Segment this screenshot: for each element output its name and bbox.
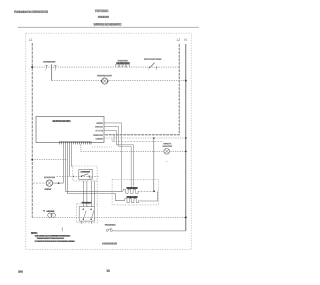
wire strip corner to indicator row <box>81 144 186 151</box>
lamp DK1 <box>102 78 108 84</box>
svg-text:2: 2 <box>156 69 157 71</box>
wire EOC inner nested corner <box>112 139 162 142</box>
bake element resistor <box>122 189 139 193</box>
door lock assembly outer dashed box <box>73 166 97 181</box>
header rule <box>18 26 199 28</box>
wire EOC pin2 nested <box>104 127 131 189</box>
junction L1 top row <box>31 66 33 68</box>
broil element resistor <box>124 199 139 203</box>
lower latch switch 2 <box>90 209 91 210</box>
lamp DK2 <box>164 149 170 155</box>
junction bake element feed <box>153 190 155 192</box>
svg-text:L2: L2 <box>177 38 181 42</box>
svg-text:xx: xx <box>166 161 168 163</box>
small wire stub near notes <box>61 227 63 231</box>
resistor oven vent heater <box>116 64 130 67</box>
wire bundle strip drop 4 <box>69 144 71 176</box>
lamp oven light filament <box>47 181 51 185</box>
TOD arrow marker <box>43 210 45 212</box>
wire EOC pin5 to N <box>104 137 186 139</box>
switch S1 terminal 1 <box>45 65 47 69</box>
wire N bottom return <box>113 230 185 232</box>
lamp DK1 terminal dots <box>101 80 103 82</box>
L2 bus wire <box>104 44 179 135</box>
wire EOC pin3 nested <box>104 130 133 186</box>
door lock motor inner box <box>79 169 92 179</box>
switch S2 blade <box>150 63 155 68</box>
lower latch switch 1 <box>83 209 84 210</box>
lower latch dashed box <box>77 204 98 223</box>
wire L1 to bundle <box>32 159 67 161</box>
motor coil M1 <box>48 213 52 217</box>
wire lock assembly drop dashed <box>96 181 98 204</box>
wire bottom row L1 to N <box>32 216 186 218</box>
wire to oven lamp <box>33 182 46 184</box>
wire EOC nested vertical extra <box>113 135 115 142</box>
motor coil M2 <box>51 213 55 217</box>
wire EOC pin1 to bake element <box>104 123 121 191</box>
junction L1 mid <box>31 159 33 161</box>
junction element feed top <box>153 137 155 139</box>
junction indicator row N <box>185 151 187 153</box>
junction bottom row N <box>185 216 187 218</box>
lamp DK2 filament <box>165 150 169 154</box>
lower latch solid box <box>79 207 94 221</box>
door lock switch terminals <box>81 176 82 177</box>
lower latch stubs <box>81 221 83 224</box>
wire lamp to bundle <box>53 182 64 184</box>
switch S2 terminal A <box>148 67 150 69</box>
wire lock to lower switch 3 <box>90 181 92 207</box>
junction N second row <box>185 80 187 82</box>
thermal switch <box>106 229 108 231</box>
switch S2 terminal B <box>155 67 157 69</box>
L1 bus wire <box>31 43 33 217</box>
wire bake right <box>141 190 155 192</box>
wire lock to lower switch 2 <box>86 181 88 207</box>
wire bundle strip drop 2 to bake row <box>66 144 123 191</box>
door lock switch blade <box>81 174 88 176</box>
wire top row L1 to L2 <box>32 66 179 68</box>
junction pin5 N <box>185 137 187 139</box>
wire bundle strip drop 3 to broil row <box>68 144 124 200</box>
wire bundle strip drop 1 <box>63 144 65 183</box>
wire door switch row <box>57 175 100 177</box>
wire strip right stub <box>92 146 113 148</box>
wire lock to lower switch 4 <box>93 181 95 207</box>
wire element feed vertical <box>153 138 155 191</box>
EOC terminal strip P1 <box>59 141 92 143</box>
svg-text:L1: L1 <box>29 38 33 42</box>
elements dashed box <box>112 179 158 205</box>
wire second row to N <box>52 80 186 82</box>
schematic dashed border frame <box>26 33 192 249</box>
lamp oven light <box>46 180 52 186</box>
junction door switch row <box>72 176 74 178</box>
lamp DK1 filament <box>103 79 107 83</box>
wire broil right riser <box>139 191 157 201</box>
wire drop from S1 common <box>51 64 53 80</box>
N bus wire <box>185 44 187 231</box>
switch S1 terminal 2 <box>54 65 56 69</box>
EOC control box U1 <box>36 117 104 143</box>
wire lock to lower switch 1 <box>83 181 85 207</box>
junction lamp bundle <box>58 182 60 184</box>
svg-text:1: 1 <box>148 69 149 71</box>
wire bundle strip drop 5 <box>71 144 72 166</box>
